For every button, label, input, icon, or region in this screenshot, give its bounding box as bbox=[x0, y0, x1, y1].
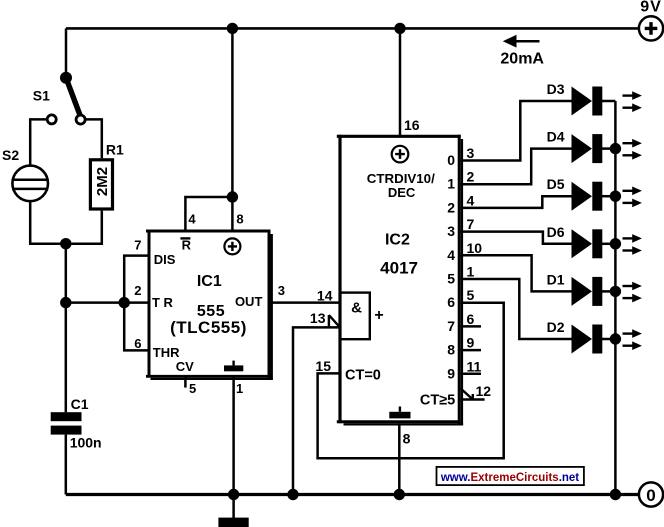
resistor R1 bbox=[90, 142, 124, 209]
pin 12 stub with inversion wedge bbox=[461, 389, 485, 400]
svg-text:2M2: 2M2 bbox=[94, 167, 111, 196]
IC2 ground bar symbol bbox=[389, 412, 410, 419]
node junction bus D4 bbox=[610, 143, 621, 154]
svg-text:12: 12 bbox=[476, 383, 492, 399]
sensor S2 bbox=[2, 147, 48, 201]
node junction S2/R1 bottom bbox=[60, 238, 71, 249]
svg-text:THR: THR bbox=[153, 345, 180, 360]
current arrow 20mA bbox=[500, 35, 544, 68]
svg-text:CT=0: CT=0 bbox=[345, 367, 381, 383]
svg-text:2: 2 bbox=[467, 169, 475, 185]
node junction top rail at pin8 riser bbox=[227, 23, 238, 34]
svg-text:3: 3 bbox=[447, 223, 455, 239]
light arrows D1 bbox=[623, 282, 642, 303]
light arrows D2 bbox=[623, 329, 642, 350]
svg-text:www.ExtremeCircuits.net: www.ExtremeCircuits.net bbox=[440, 472, 579, 484]
wire S2 bottom bbox=[30, 201, 102, 244]
node junction TR on left rail bbox=[60, 297, 71, 308]
svg-text:7: 7 bbox=[134, 238, 141, 253]
svg-text:14: 14 bbox=[317, 288, 333, 304]
svg-text:(TLC555): (TLC555) bbox=[170, 318, 247, 337]
LED D4 bbox=[547, 129, 603, 164]
pin number 3 and OUT wire bbox=[269, 301, 341, 304]
node junction pin4/pin8 bbox=[227, 191, 238, 202]
wire pin1 to D2 bbox=[461, 279, 572, 339]
svg-text:16: 16 bbox=[404, 117, 420, 133]
svg-text:5: 5 bbox=[189, 381, 196, 396]
svg-text:9: 9 bbox=[467, 335, 475, 351]
svg-text:7: 7 bbox=[467, 216, 475, 232]
svg-text:2: 2 bbox=[134, 283, 141, 298]
wire pin13 to ground rail bbox=[293, 327, 340, 494]
wire D6 to bus bbox=[601, 243, 615, 246]
node junction bottom rail bus bbox=[610, 489, 621, 500]
svg-text:9V: 9V bbox=[640, 0, 662, 16]
gate box & bbox=[340, 293, 383, 340]
svg-text:D6: D6 bbox=[547, 224, 565, 240]
svg-text:DEC: DEC bbox=[388, 185, 416, 200]
svg-text:4: 4 bbox=[188, 211, 196, 226]
svg-text:S1: S1 bbox=[33, 87, 50, 103]
light arrows D4 bbox=[623, 139, 642, 160]
svg-text:100n: 100n bbox=[70, 435, 102, 451]
counter IC2 box bbox=[337, 135, 463, 425]
light arrows D5 bbox=[623, 187, 642, 208]
pin number 1 and ground wire bbox=[232, 377, 235, 495]
svg-text:6: 6 bbox=[467, 311, 475, 327]
wire S1 left contact to S2 bbox=[30, 119, 47, 166]
IC2 pin 8 wire bbox=[398, 423, 401, 494]
svg-text:R: R bbox=[182, 238, 192, 253]
node junction top rail at pin16 bbox=[394, 23, 405, 34]
wire pin7 to D6 bbox=[461, 232, 572, 244]
svg-text:D4: D4 bbox=[547, 129, 565, 145]
svg-text:D2: D2 bbox=[547, 319, 565, 335]
wire pin15 to pin5 feedback bbox=[318, 303, 504, 459]
wire TR net bbox=[66, 301, 150, 304]
node 0V terminal bbox=[639, 482, 663, 506]
node junction bus D2 bbox=[610, 333, 621, 344]
capacitor C1 bbox=[51, 396, 102, 451]
wire top supply rail bbox=[66, 27, 639, 30]
svg-text:8: 8 bbox=[403, 431, 411, 447]
banner www.ExtremeCircuits.net bbox=[437, 467, 584, 485]
wire C1 to bottom rail bbox=[65, 435, 68, 495]
svg-text:10: 10 bbox=[467, 240, 483, 256]
unused pin stubs 6 9 11 bbox=[461, 326, 481, 373]
light arrows D3 bbox=[623, 91, 642, 112]
wire pin2 to D4 bbox=[461, 149, 572, 185]
wire S1 right contact to R1 bbox=[85, 119, 102, 158]
light arrows D6 bbox=[623, 234, 642, 255]
LED D6 bbox=[547, 224, 603, 258]
svg-text:1: 1 bbox=[447, 176, 455, 192]
svg-text:5: 5 bbox=[467, 287, 475, 303]
IC1 pin 4 and pin 8 wires bbox=[185, 197, 232, 231]
LED D3 bbox=[547, 81, 603, 116]
svg-text:2: 2 bbox=[447, 199, 455, 215]
LED D2 bbox=[547, 319, 603, 354]
IC2 supply plus symbol bbox=[392, 146, 409, 163]
wire LED cathode bus bbox=[614, 101, 617, 495]
svg-text:+: + bbox=[374, 307, 383, 324]
svg-text:CV: CV bbox=[176, 359, 194, 374]
node junction bus D1 bbox=[610, 286, 621, 297]
svg-text:11: 11 bbox=[467, 358, 482, 374]
wire D1 to bus bbox=[601, 290, 615, 293]
svg-text:20mA: 20mA bbox=[500, 50, 544, 67]
wire D5 to bus bbox=[601, 195, 615, 198]
svg-text:8: 8 bbox=[236, 211, 243, 226]
wire pin3 to D3 bbox=[461, 101, 572, 161]
external pin numbers right side bbox=[467, 145, 492, 399]
svg-text:15: 15 bbox=[315, 358, 331, 374]
switch S1 bbox=[33, 72, 85, 124]
svg-text:8: 8 bbox=[447, 342, 455, 358]
ground symbol bbox=[218, 495, 248, 527]
svg-text:1: 1 bbox=[467, 264, 475, 280]
LED D1 bbox=[547, 271, 603, 306]
svg-text:IC2: IC2 bbox=[385, 231, 410, 248]
wire bottom ground rail bbox=[66, 493, 639, 496]
IC2 internal output digits bbox=[447, 152, 455, 381]
node 9V terminal bbox=[639, 0, 663, 41]
node junction bottom rail pin8 bbox=[394, 489, 405, 500]
svg-text:D5: D5 bbox=[547, 176, 565, 192]
svg-text:4017: 4017 bbox=[380, 258, 418, 277]
node junction DIS/TR/THR bbox=[119, 297, 130, 308]
IC2 pin 16 wire bbox=[399, 28, 402, 136]
svg-text:4: 4 bbox=[447, 247, 455, 263]
wire D3 to bus bbox=[601, 100, 615, 103]
timer IC1 555 box bbox=[146, 230, 273, 380]
svg-text:6: 6 bbox=[447, 294, 455, 310]
svg-text:S2: S2 bbox=[2, 147, 19, 163]
pin number 5 and CV stub bbox=[184, 377, 187, 388]
svg-text:5: 5 bbox=[447, 271, 455, 287]
node junction bottom rail pin1 bbox=[228, 489, 239, 500]
svg-text:DIS: DIS bbox=[154, 252, 176, 267]
LED D5 bbox=[547, 176, 603, 211]
wire pin4 to D5 bbox=[461, 196, 572, 208]
svg-text:C1: C1 bbox=[71, 396, 89, 412]
wire S1 riser bbox=[65, 28, 68, 74]
node junction bottom rail pin13 bbox=[287, 489, 298, 500]
pin number 13 with inversion wedge bbox=[310, 310, 340, 327]
IC1 ground bar symbol bbox=[224, 365, 243, 371]
svg-text:D3: D3 bbox=[547, 81, 565, 97]
svg-text:IC1: IC1 bbox=[197, 273, 222, 290]
svg-text:&: & bbox=[351, 300, 362, 317]
svg-text:6: 6 bbox=[134, 336, 141, 351]
wire left rail down to C1 bbox=[65, 244, 68, 413]
wire DIS-THR link bbox=[124, 256, 150, 351]
svg-text:0: 0 bbox=[646, 486, 655, 505]
svg-text:9: 9 bbox=[447, 365, 455, 381]
svg-text:7: 7 bbox=[447, 318, 455, 334]
svg-text:T R: T R bbox=[152, 295, 174, 310]
svg-text:0: 0 bbox=[447, 152, 455, 168]
svg-text:3: 3 bbox=[467, 145, 475, 161]
svg-text:CTRDIV10/: CTRDIV10/ bbox=[367, 171, 435, 186]
wire D2 to bus bbox=[601, 338, 615, 341]
wire pin10 to D1 bbox=[461, 255, 572, 291]
svg-text:R1: R1 bbox=[106, 142, 124, 158]
svg-text:3: 3 bbox=[278, 283, 285, 298]
node junction bus D5 bbox=[610, 191, 621, 202]
svg-text:1: 1 bbox=[236, 381, 243, 396]
svg-text:4: 4 bbox=[467, 192, 475, 208]
svg-text:13: 13 bbox=[310, 310, 326, 326]
node junction bus D6 bbox=[610, 238, 621, 249]
svg-text:OUT: OUT bbox=[235, 294, 263, 309]
svg-text:CT≥5: CT≥5 bbox=[420, 392, 455, 408]
svg-text:D1: D1 bbox=[547, 271, 565, 287]
wire D4 to bus bbox=[601, 147, 615, 150]
IC1 supply plus symbol bbox=[224, 238, 240, 254]
